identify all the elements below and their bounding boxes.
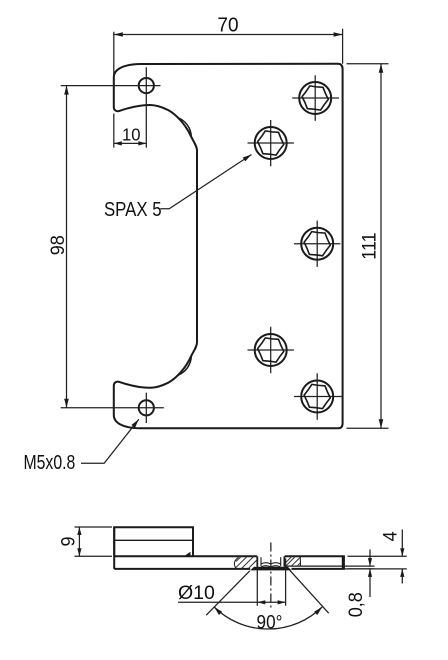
screw hole U1 centerlines (292, 75, 339, 121)
dim 90deg arc arrows (213, 605, 223, 615)
svg-text:98: 98 (47, 235, 69, 255)
dim 0,8 extension lines (345, 566, 375, 569)
label M5x0.8 arrow (131, 418, 140, 428)
label M5x0.8 leader (81, 419, 139, 463)
dim 10 line (114, 142, 147, 144)
screw hole U5 (301, 381, 333, 413)
dim 98 arrow bottom (64, 399, 69, 408)
svg-text:10: 10 (122, 125, 140, 144)
side view block (114, 527, 193, 556)
dim 111 arrow top (379, 64, 384, 73)
side view plate left edge (113, 527, 115, 569)
dim 4 arrow bottom (400, 569, 404, 577)
hole M5 bottom-left C2 (139, 400, 154, 415)
screw hole U3 centerlines (294, 221, 340, 267)
svg-text:111: 111 (358, 232, 380, 259)
dim 90deg rays (206, 570, 329, 615)
screw hole U3 (301, 228, 333, 260)
hole M5 top-left C1 (139, 78, 154, 93)
section break line right (299, 556, 301, 566)
dim 9 arrow top (77, 527, 81, 535)
side view step edge 0.8 (285, 565, 345, 567)
label SPAX 5 leader (160, 155, 251, 209)
C2 centerlines (61, 393, 164, 423)
side view block mid line (114, 539, 193, 541)
hatch left of hole (236, 557, 257, 569)
tangent-edge arc bottom (178, 356, 192, 375)
dim 0,8 arrow bottom (368, 569, 372, 577)
section break line left (234, 557, 238, 569)
dim 4 arrow top (400, 548, 404, 556)
insert thread lines (261, 557, 281, 566)
dim 111 line (380, 64, 382, 429)
dim 98 line (66, 86, 68, 408)
dim 4 line (401, 530, 403, 584)
dim 10 arrow left (114, 141, 122, 145)
svg-text:9: 9 (57, 536, 79, 546)
centerline of hole (dashed) (270, 543, 272, 610)
dim 70 arrow left (114, 32, 123, 37)
screw hole U2 (255, 127, 287, 159)
dim D10 extension lines (257, 559, 285, 606)
thread crest arcs row2 (261, 566, 281, 567)
side view plate bottom edge (114, 568, 345, 570)
label SPAX 5 arrow (243, 153, 253, 162)
dim 70 line (114, 34, 343, 36)
insert flange (filled) (250, 567, 291, 571)
small triangle mark on plate top (184, 552, 191, 557)
dim 10 extension line (113, 114, 115, 148)
side view plate right end bar (342, 556, 345, 569)
svg-text:70: 70 (217, 14, 238, 37)
insert hole outer walls (257, 556, 284, 566)
svg-text:Ø10: Ø10 (178, 582, 215, 604)
dim D10 arrow right (278, 600, 286, 604)
side view plate top edge (114, 555, 345, 557)
dim 0,8 arrow top (368, 558, 372, 566)
hatch right of hole (285, 557, 301, 566)
dim 90deg arc (214, 607, 322, 629)
svg-text:SPAX 5: SPAX 5 (104, 197, 162, 220)
svg-text:4: 4 (379, 531, 401, 541)
svg-text:90°: 90° (257, 612, 283, 633)
tangent-edge arc top (178, 118, 192, 137)
screw hole U4 (255, 334, 287, 366)
dim 9 line (78, 527, 80, 556)
screw hole U5 centerlines (294, 373, 343, 419)
dim 9 extension lines (75, 527, 113, 556)
dim 0,8 line (369, 550, 371, 598)
dim 9 arrow bottom (77, 548, 81, 556)
dim 4 extension lines (348, 556, 407, 569)
dim 70 arrow right (334, 32, 343, 37)
dim 111 extension lines (347, 64, 389, 429)
dim D10 arrow left (257, 600, 265, 604)
dim 70 extension lines (114, 29, 343, 77)
dim D10 line with tail (178, 601, 286, 603)
C1 centerlines (61, 67, 161, 147)
svg-text:M5x0.8: M5x0.8 (24, 451, 76, 473)
screw hole U4 centerlines (248, 327, 294, 373)
dim 10 arrow right (138, 141, 146, 145)
plate outline (top view) (114, 64, 343, 429)
screw hole U1 (299, 82, 331, 114)
dim 98 arrow top (64, 86, 69, 95)
dim 111 arrow bottom (379, 419, 384, 428)
thread crest arcs (261, 563, 281, 564)
svg-text:0,8: 0,8 (345, 592, 367, 617)
screw hole U2 centerlines (248, 120, 294, 166)
